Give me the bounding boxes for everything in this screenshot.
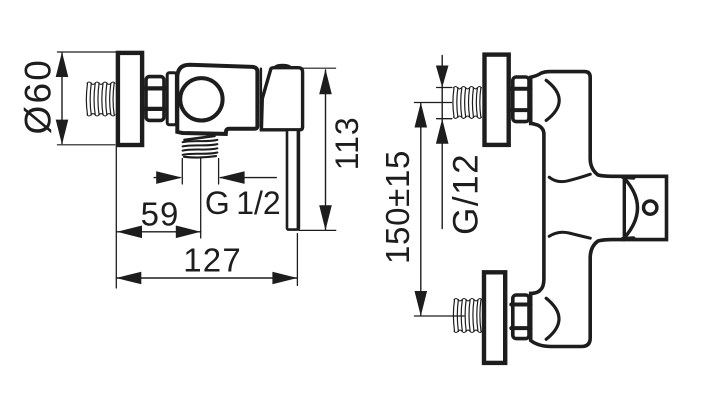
dimension G/12 text: [447, 153, 486, 235]
bottom wall flange (right view): [484, 272, 505, 363]
bottom hex nut (right view): [511, 295, 530, 339]
dimension 150±15 line A: [414, 103, 464, 317]
svg-text:127: 127: [183, 242, 242, 279]
faucet body (left view): [177, 65, 257, 134]
bottom bell arc: [546, 298, 559, 339]
svg-text:G 1/2: G 1/2: [205, 185, 281, 221]
outlet hole circle: [644, 201, 657, 214]
dimension 113: [299, 68, 336, 230]
top wall pipe thread (right view): [453, 87, 482, 119]
svg-text:59: 59: [141, 196, 180, 233]
handle body (left view): [261, 68, 302, 130]
valve cartridge circle: [180, 78, 222, 120]
outlet block tick bottom: [623, 236, 634, 241]
top hex nut (right view): [511, 77, 530, 122]
dimension G1/2 arrows: [154, 171, 276, 184]
127 right extension line: [296, 234, 298, 286]
wall flange (left view): [118, 53, 142, 145]
top bell arc: [546, 80, 559, 120]
handle cap (black): [273, 64, 292, 68]
svg-text:G/12: G/12: [447, 153, 486, 235]
dimension Ø60 text: [18, 58, 59, 135]
dimension G1/2 text: [205, 185, 281, 221]
outlet thread (downward): [183, 136, 218, 158]
dimension 127: [116, 272, 297, 285]
svg-text:113: 113: [329, 116, 365, 170]
outlet centerline extension: [200, 157, 202, 238]
handle lever rod: [287, 130, 299, 230]
right view main body outline: [531, 72, 667, 347]
svg-text:150±15: 150±15: [379, 150, 416, 264]
outlet witness line left: [181, 159, 183, 185]
hex nut (left view): [144, 77, 165, 121]
connector bell ring (left view): [167, 73, 176, 125]
outlet witness line right: [218, 159, 220, 185]
bottom wall pipe thread (right view): [453, 299, 482, 333]
svg-text:Ø60: Ø60: [18, 58, 59, 135]
outlet block D-arc: [623, 176, 626, 239]
waist break curve top: [549, 174, 590, 181]
waist break curve bottom: [549, 232, 590, 238]
wall pipe thread (left of flange): [86, 82, 115, 116]
dimension G/12 line B: [436, 56, 452, 229]
dimension 150±15 text: [379, 150, 416, 264]
flange centerline extension (left view): [115, 147, 117, 288]
dimension 59: [117, 226, 201, 239]
dimension Ø60 line and arrows: [56, 52, 116, 145]
top wall flange (right view): [485, 55, 509, 145]
outlet block tick top: [623, 175, 634, 180]
handle gap line: [260, 69, 262, 130]
